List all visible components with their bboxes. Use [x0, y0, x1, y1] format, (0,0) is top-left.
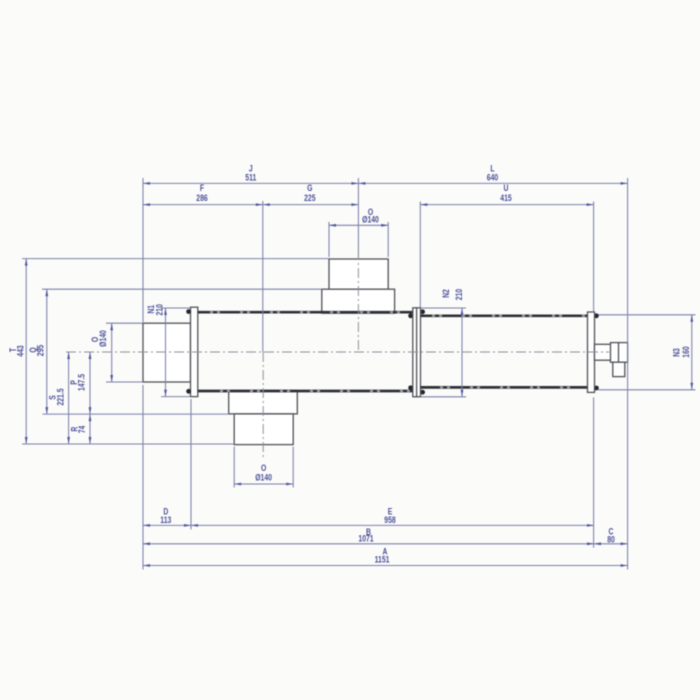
dim line U: [420, 204, 593, 206]
ext U left: [419, 202, 421, 308]
svg-text:80: 80: [607, 535, 615, 545]
ext horiz N3 bottom: [599, 389, 696, 391]
stitch marks left shell bottom: [220, 390, 413, 392]
svg-text:U: U: [504, 183, 509, 193]
arrows T: [25, 259, 28, 266]
svg-text:1151: 1151: [375, 555, 390, 565]
svg-text:F: F: [200, 183, 204, 193]
arrows O-bottom: [234, 483, 241, 486]
arrows A: [143, 564, 150, 567]
dimension lines: [26, 183, 692, 565]
top port pipe: [329, 259, 388, 289]
arrows J: [143, 182, 150, 185]
top port base plate: [322, 289, 395, 313]
svg-text:Ø140: Ø140: [98, 330, 108, 347]
svg-text:Ø140: Ø140: [362, 215, 379, 225]
arrows N3: [690, 315, 693, 322]
extension lines: [22, 178, 696, 570]
device body: [143, 259, 628, 445]
elbow inner line: [618, 343, 620, 363]
dim line D E: [143, 524, 594, 526]
svg-text:415: 415: [500, 193, 512, 203]
ext horiz N1 top: [161, 307, 191, 309]
svg-text:443: 443: [16, 345, 26, 357]
bottom port base plate: [229, 391, 298, 414]
svg-text:640: 640: [487, 173, 499, 183]
dim line Q: [46, 289, 48, 414]
right outlet lower block: [613, 362, 625, 376]
dim line N3: [691, 315, 693, 390]
arrows O-top: [329, 224, 336, 227]
arrows E: [191, 524, 198, 527]
ext horiz top plate top: [42, 288, 322, 290]
arrows L: [358, 182, 365, 185]
arrows Q: [45, 289, 48, 296]
svg-text:295: 295: [36, 344, 46, 356]
ext O-top left: [328, 222, 330, 257]
ext F G divider: [262, 201, 264, 352]
mid flange bolt right top: [420, 309, 425, 314]
ext O-bottom right: [292, 447, 294, 488]
bottom port centerline: [262, 352, 264, 458]
right outlet elbow block: [611, 343, 628, 363]
svg-text:511: 511: [245, 173, 257, 183]
dim line F G: [143, 204, 358, 206]
ext horiz N3 top: [599, 314, 696, 316]
ext horiz left pipe top: [106, 322, 143, 324]
svg-text:221.5: 221.5: [55, 388, 65, 406]
ext O-bottom left: [233, 447, 235, 488]
ext U right lower: [593, 397, 595, 547]
ext horiz top of top port: [22, 258, 329, 260]
svg-text:160: 160: [681, 346, 691, 358]
left flange plate: [191, 307, 198, 396]
ext horiz N1 bottom: [161, 396, 191, 398]
right shell bottom edge: [421, 386, 588, 389]
centerlines: [66, 250, 609, 458]
arrows R: [89, 414, 92, 421]
stitch marks right shell bottom: [440, 386, 588, 388]
ext horiz bottom pipe bottom: [22, 443, 234, 445]
svg-text:N2: N2: [441, 289, 451, 298]
right flange bolt top: [594, 313, 599, 318]
arrows C: [594, 542, 601, 545]
ext horiz N2 top: [421, 307, 467, 309]
right flange bolt bottom: [594, 386, 599, 391]
ext horiz left pipe bottom: [106, 381, 143, 383]
mid flange bolt left top: [408, 313, 413, 318]
stitch marks left shell top: [210, 311, 413, 313]
dim line S: [68, 352, 70, 444]
svg-text:210: 210: [454, 288, 464, 300]
arrows N1: [164, 308, 167, 315]
arrows P: [89, 352, 92, 359]
arrows D: [143, 524, 150, 527]
left flange bolt top: [186, 309, 191, 314]
dim line J L: [143, 182, 628, 184]
svg-text:Ø140: Ø140: [255, 473, 272, 483]
arrows: [25, 182, 693, 567]
stitch marks right shell top: [432, 315, 588, 317]
svg-text:210: 210: [155, 304, 165, 316]
arrows N2: [461, 308, 464, 315]
arrows F: [143, 203, 150, 206]
ext bottom datum x143: [142, 385, 144, 570]
ext O-top right: [387, 222, 389, 257]
top port centerline: [357, 250, 359, 352]
ext D right x191: [190, 399, 192, 529]
arrows O-left: [110, 323, 113, 330]
svg-text:286: 286: [196, 193, 208, 203]
mid flange bolt left bottom: [408, 385, 413, 390]
dim line N1: [165, 308, 167, 397]
svg-text:958: 958: [384, 515, 396, 525]
ext U right upper: [593, 202, 595, 313]
arrows S: [67, 352, 70, 359]
ext top port center: [357, 178, 359, 257]
mid flange pair plate: [413, 308, 421, 397]
dim line N2: [461, 308, 463, 397]
dim line P R: [89, 352, 91, 444]
dim line B C: [143, 543, 628, 545]
mid flange bolt right bottom: [420, 390, 425, 395]
svg-text:147.5: 147.5: [77, 373, 87, 391]
svg-text:113: 113: [160, 515, 172, 525]
ext horiz bottom plate bottom: [43, 413, 229, 415]
main axis centerline: [66, 351, 609, 353]
right end flange plate: [588, 312, 595, 392]
svg-text:1071: 1071: [358, 534, 374, 544]
arrows U: [420, 203, 427, 206]
ext horiz N2 bottom: [421, 396, 467, 398]
arrows B: [143, 542, 150, 545]
ext right end x627.6: [627, 178, 629, 570]
arrows G: [263, 203, 270, 206]
dim line O-bottom: [234, 483, 293, 485]
svg-text:74: 74: [77, 425, 87, 433]
dim line O-left: [111, 323, 113, 382]
bottom port pipe: [234, 414, 293, 445]
mid flange split line: [416, 308, 418, 397]
ext left datum x143 top: [142, 178, 144, 322]
dim line T: [25, 259, 27, 444]
left flange bolt bottom: [186, 389, 191, 394]
right outlet nub: [595, 344, 612, 360]
left shell top edge: [198, 311, 413, 314]
left pipe O: [143, 323, 191, 382]
svg-text:225: 225: [304, 193, 316, 203]
dim line O-top: [329, 224, 388, 226]
left shell bottom edge: [198, 390, 413, 393]
svg-text:G: G: [307, 183, 312, 193]
dim line A: [143, 565, 628, 567]
right shell top edge: [421, 314, 588, 317]
